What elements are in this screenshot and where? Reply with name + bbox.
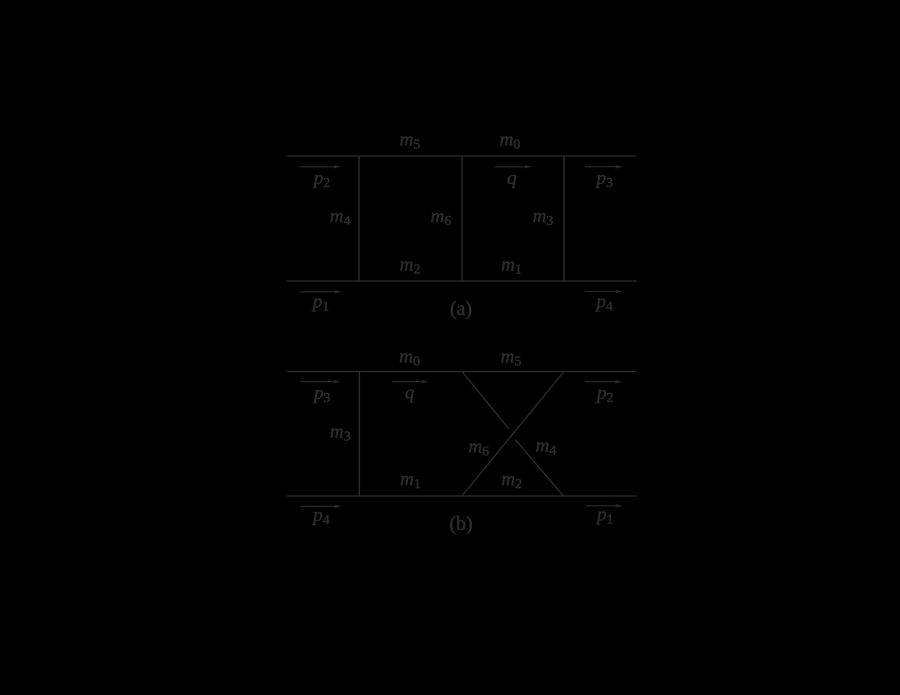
svg-text:p3: p3 — [595, 168, 614, 191]
svg-text:p3: p3 — [312, 383, 331, 406]
svg-text:m4: m4 — [536, 436, 557, 459]
svg-text:m1: m1 — [400, 469, 421, 492]
svg-text:p2: p2 — [312, 168, 331, 191]
svg-text:p1: p1 — [311, 292, 330, 315]
svg-text:q: q — [507, 168, 517, 189]
svg-text:m5: m5 — [400, 130, 421, 153]
svg-text:p2: p2 — [595, 383, 614, 406]
svg-text:m2: m2 — [400, 255, 421, 278]
svg-text:p1: p1 — [595, 505, 614, 528]
svg-text:m2: m2 — [501, 469, 522, 492]
svg-text:(a): (a) — [450, 298, 472, 320]
svg-text:m3: m3 — [533, 206, 554, 229]
svg-text:m0: m0 — [399, 347, 420, 370]
svg-text:m0: m0 — [500, 130, 521, 153]
svg-text:m6: m6 — [468, 437, 489, 460]
svg-text:(b): (b) — [449, 513, 472, 535]
svg-text:q: q — [405, 383, 415, 404]
svg-text:m5: m5 — [501, 347, 522, 370]
svg-text:m6: m6 — [431, 206, 452, 229]
svg-text:m4: m4 — [330, 206, 351, 229]
svg-text:m3: m3 — [330, 421, 351, 444]
svg-text:m1: m1 — [501, 255, 522, 278]
svg-text:p4: p4 — [594, 292, 613, 315]
svg-text:p4: p4 — [311, 505, 330, 528]
